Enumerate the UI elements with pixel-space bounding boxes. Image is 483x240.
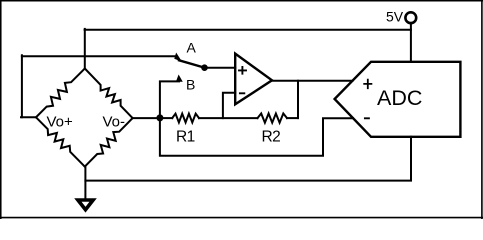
switch pole junction dot	[201, 64, 208, 71]
wire Vo+ to switch contact A	[22, 55, 177, 57]
ground	[78, 200, 93, 210]
wire node to R1	[160, 117, 172, 119]
wire bottom ground return to ADC	[85, 137, 411, 181]
op-amp U1 triangle	[235, 54, 272, 105]
op-amp minus sign	[240, 92, 244, 94]
svg-text:A: A	[187, 40, 197, 56]
svg-text:R2: R2	[262, 128, 281, 145]
wire node down then to ADC minus sense input	[160, 118, 353, 156]
svg-text:ADC: ADC	[377, 86, 422, 110]
switch contact A tick	[175, 54, 181, 61]
wire top excitation from 5V node to bridge top	[85, 29, 411, 31]
ADC plus sign	[364, 80, 371, 89]
wire contact B to node	[160, 80, 179, 118]
svg-text:B: B	[186, 77, 195, 93]
wire op-amp inverting input tap	[223, 93, 235, 118]
resistor R2	[258, 114, 288, 123]
wire left stub to bridge left vertex	[21, 116, 36, 118]
resistor bridge bottom-right	[85, 118, 133, 167]
wire bridge right vertex to node Vo-	[133, 117, 160, 119]
wire left vertical Vo+	[21, 55, 23, 117]
ADC minus sign	[365, 117, 369, 119]
switch arm A to pole	[179, 60, 205, 67]
svg-text:5V: 5V	[386, 9, 404, 25]
wire R1 to R2	[199, 117, 258, 119]
svg-text:R1: R1	[176, 128, 195, 145]
wire op-amp output to ADC plus input	[272, 80, 353, 82]
wire R2 to feedback corner	[287, 117, 298, 119]
resistor R1	[172, 114, 199, 123]
op-amp plus sign	[239, 67, 246, 74]
5V supply terminal circle	[405, 12, 416, 23]
wire feedback vertical to op-amp output	[297, 81, 299, 118]
switch contact B tick	[177, 76, 182, 82]
svg-text:Vo-: Vo-	[103, 114, 126, 131]
node Vo- junction dot	[156, 114, 163, 121]
ADC block	[335, 62, 461, 137]
svg-text:Vo+: Vo+	[47, 114, 74, 131]
resistor bridge top-right	[85, 69, 133, 119]
wire bridge bottom to ground	[84, 167, 86, 200]
wire 5V supply drop to ADC top	[410, 23, 412, 62]
resistor bridge top-left	[36, 69, 85, 118]
wire switch pole to op-amp plus input	[205, 67, 236, 69]
resistor bridge bottom-left	[36, 117, 85, 166]
wire bridge top drop	[84, 29, 86, 69]
